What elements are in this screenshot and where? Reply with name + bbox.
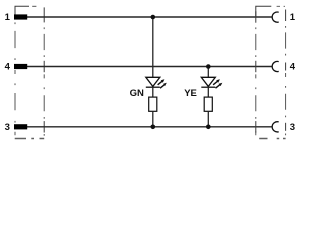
right connector housing (dash-dot outline) [256,6,286,138]
LED D1 (GN) [146,77,167,88]
svg-text:3: 3 [290,122,295,133]
LED D2 (YE) [201,77,222,88]
svg-text:4: 4 [290,62,296,73]
junction node row1/GN [151,15,156,20]
resistor R2 [204,97,212,111]
right socket contact 3 [272,122,279,132]
svg-text:1: 1 [290,12,296,23]
left contact pin 3 [14,124,27,129]
pin 1 polarization corner mark (left) [15,6,29,14]
right housing boundary ticks over wires [256,10,286,133]
wire resistor R2 to pin3 row [207,111,209,127]
pin 1 polarization corner mark (right) [256,6,271,17]
junction node row3/GN [151,125,156,130]
wire row pin3 [27,126,272,128]
wire GN branch (pin1 to LED, crosses pin4 row) [152,17,154,78]
left housing boundary ticks over wires [43,7,45,132]
resistor R1 [149,97,157,111]
junction node row3/YE [206,125,211,130]
wire row pin4 [27,66,272,68]
wire LED D1 to resistor R1 [152,87,154,97]
svg-text:YE: YE [184,88,197,99]
junction node row4/YE [206,64,211,69]
svg-text:1: 1 [5,12,11,23]
wire row pin1 [27,16,272,18]
svg-text:3: 3 [5,122,10,133]
wire LED D2 to resistor R2 [207,87,209,97]
svg-text:GN: GN [130,88,144,99]
wire resistor R1 to pin3 row [152,111,154,127]
left contact pin 1 [14,14,27,19]
svg-text:4: 4 [5,62,11,73]
left contact pin 4 [14,64,27,69]
right socket contact 1 [272,12,279,22]
wire YE branch (pin4 to LED) [207,67,209,78]
left connector housing (dash-dot outline) [15,6,45,138]
right socket contact 4 [272,61,279,71]
